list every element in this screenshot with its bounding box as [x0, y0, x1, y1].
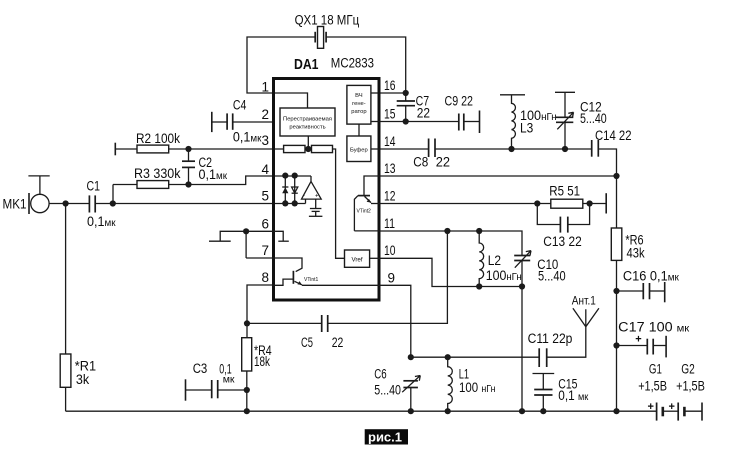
svg-text:5...40: 5...40	[580, 111, 607, 126]
svg-text:C1: C1	[87, 179, 101, 194]
pin numbers right side	[384, 78, 396, 286]
node pin9/C6	[408, 354, 414, 360]
node C17	[613, 342, 619, 348]
node R4/C3	[244, 387, 250, 393]
svg-text:+1,5В: +1,5В	[676, 379, 705, 394]
wire pin6 junction down to pin 7	[245, 231, 247, 258]
svg-text:C14 22: C14 22	[595, 128, 632, 143]
capacitor C1	[87, 179, 116, 230]
svg-text:DA1: DA1	[294, 57, 319, 73]
capacitor C7	[397, 93, 430, 122]
svg-text:C13 22: C13 22	[543, 234, 581, 249]
capacitor C13	[537, 204, 589, 250]
svg-text:Vref: Vref	[351, 256, 362, 263]
bottom rail	[66, 410, 657, 412]
svg-text:12: 12	[384, 189, 396, 204]
resistor R1	[60, 354, 96, 411]
svg-text:0,1 мк: 0,1 мк	[558, 388, 588, 403]
svg-text:L3: L3	[520, 121, 533, 136]
node rail/C15	[540, 408, 546, 414]
wire pin 13 rail	[378, 175, 617, 177]
node rail/R6 column	[613, 408, 619, 414]
wire crystal left to pin 1	[247, 37, 315, 108]
svg-text:-: -	[303, 193, 305, 199]
svg-text:ратор: ратор	[351, 109, 366, 115]
wire pin 13 to VTint2 collector	[364, 176, 378, 196]
internal resistor right	[312, 145, 333, 152]
svg-text:14: 14	[384, 134, 396, 149]
internal op-amp triangle	[302, 176, 322, 204]
svg-text:G1: G1	[649, 362, 662, 377]
antenna Ant.1	[572, 294, 599, 327]
svg-text:18k: 18k	[254, 354, 270, 369]
svg-text:ВЧ: ВЧ	[355, 93, 363, 99]
node L3/pin14 rail	[508, 146, 514, 152]
capacitor C4	[212, 98, 272, 145]
terminal bar pin 6 external	[209, 240, 231, 242]
svg-text:22: 22	[436, 155, 450, 170]
svg-text:0,1мк: 0,1мк	[199, 167, 228, 182]
node R2/C2	[185, 146, 191, 152]
svg-text:Ант.1: Ант.1	[572, 294, 596, 308]
svg-text:+: +	[648, 401, 654, 413]
svg-text:100нГн: 100нГн	[486, 268, 522, 283]
wire VTint2 base to pin 11	[354, 230, 378, 232]
wire pin 7 to internal transistor collector	[246, 258, 302, 272]
svg-text:C4: C4	[233, 98, 247, 113]
internal diode pair	[282, 176, 298, 204]
capacitor C9	[445, 94, 480, 134]
internal resistor left	[284, 145, 305, 152]
wire pin 6 internal stub	[274, 231, 283, 241]
wire internal resistor to Vref	[333, 149, 345, 258]
svg-text:6: 6	[261, 217, 269, 232]
capacitor C2	[182, 149, 227, 185]
svg-text:43k: 43k	[627, 246, 645, 261]
svg-text:5: 5	[261, 189, 269, 204]
svg-text:C3: C3	[193, 361, 208, 376]
node C7/pin15	[403, 118, 409, 124]
svg-text:МС2833: МС2833	[331, 56, 374, 71]
inductor L1	[448, 357, 496, 411]
svg-text:5...40: 5...40	[538, 269, 566, 284]
svg-text:G2: G2	[681, 362, 695, 377]
svg-text:Перестраиваемая: Перестраиваемая	[283, 117, 332, 123]
wire pin 8 to C5 column	[247, 285, 274, 338]
node crystal/C7	[403, 90, 409, 96]
svg-text:22: 22	[332, 335, 344, 350]
svg-text:22: 22	[417, 106, 430, 121]
capacitor C3	[186, 361, 247, 401]
node A (mic junction)	[63, 200, 69, 206]
wire pin 15 to C9	[378, 121, 459, 123]
svg-text:16: 16	[384, 78, 396, 93]
svg-text:C17 100 мк: C17 100 мк	[618, 320, 689, 335]
wire mic junction down to R1	[65, 204, 67, 355]
node pin8/C5	[244, 320, 250, 326]
svg-text:5...40: 5...40	[374, 383, 401, 398]
svg-text:3: 3	[261, 133, 269, 148]
crystal QX1 18 MHz	[295, 13, 360, 49]
svg-text:3k: 3k	[76, 372, 90, 387]
svg-text:C9 22: C9 22	[445, 94, 474, 109]
microphone MK1	[3, 176, 50, 214]
svg-text:4: 4	[261, 162, 269, 177]
node pin11/L2	[476, 228, 482, 234]
wire VTint2 emitter to pin 12	[371, 203, 378, 205]
svg-text:мк: мк	[223, 374, 235, 386]
transistor VTint2	[354, 196, 371, 231]
svg-text:8: 8	[261, 270, 269, 285]
node diodes pin5 a	[282, 200, 288, 206]
svg-text:C8: C8	[413, 155, 428, 170]
wire pin 11 rail to C10	[378, 231, 522, 256]
svg-text:MK1: MK1	[3, 197, 27, 212]
battery G1	[638, 362, 667, 421]
svg-text:100 нГн: 100 нГн	[459, 380, 496, 395]
internal block Vref	[345, 250, 379, 267]
resistor R2	[115, 131, 180, 155]
svg-text:L2: L2	[488, 253, 501, 268]
node L1 top	[445, 354, 451, 360]
resistor R3	[113, 166, 181, 204]
capacitor C15	[533, 374, 589, 412]
svg-text:9: 9	[388, 271, 396, 286]
svg-text:0,1мк: 0,1мк	[233, 130, 262, 145]
node R6/C16	[613, 288, 619, 294]
wire pin 16	[378, 92, 406, 94]
svg-text:11: 11	[384, 216, 395, 231]
svg-text:+: +	[635, 334, 641, 346]
wire R3 node to pin 4	[169, 176, 311, 185]
node diodes pin5 b	[292, 200, 298, 206]
resistor R5	[549, 184, 606, 214]
variable capacitor C12	[555, 92, 607, 149]
svg-text:10: 10	[384, 243, 396, 258]
capacitor C17 polarized	[617, 320, 690, 358]
node C14/pin13	[613, 173, 619, 179]
svg-text:1: 1	[261, 80, 269, 95]
node R5 right	[587, 200, 593, 206]
terminal bar pin 6 internal	[278, 240, 289, 242]
node diodes pin4 a	[282, 173, 288, 179]
node diodes pin4 b	[292, 173, 298, 179]
internal block RF generator	[347, 85, 378, 124]
svg-text:Буфер: Буфер	[350, 148, 368, 154]
svg-text:реактивность: реактивность	[289, 125, 325, 131]
node internal resistors	[305, 146, 311, 152]
resistor R4	[242, 338, 272, 412]
figure label	[365, 429, 408, 444]
wire C5 to pin 11 branch	[328, 231, 448, 323]
svg-text:гене-: гене-	[352, 101, 366, 107]
svg-text:C6: C6	[374, 367, 386, 382]
terminal bar battery	[701, 403, 703, 421]
svg-text:R3 330k: R3 330k	[134, 166, 181, 181]
wire VTint1 emitter to pin 9	[302, 284, 378, 286]
svg-text:13: 13	[384, 161, 396, 176]
wire G2 to terminal	[684, 410, 702, 412]
capacitor C5	[247, 315, 343, 350]
wire pin 6 external	[220, 231, 274, 241]
node pin6 junction	[243, 228, 249, 234]
internal block tunable reactance	[280, 108, 335, 136]
svg-text:+: +	[315, 194, 319, 200]
wire R2 to pin 3	[169, 148, 284, 150]
svg-text:15: 15	[384, 107, 396, 122]
wire crystal right to pin 16	[326, 37, 406, 93]
node rail/L1	[445, 408, 451, 414]
svg-text:2: 2	[261, 107, 269, 122]
variable capacitor C6	[374, 367, 420, 412]
wire pin 10 to L2 bottom	[378, 258, 522, 286]
wire G1 to G2	[663, 410, 678, 412]
node L2 bottom	[476, 283, 482, 289]
wire mic to C1	[49, 203, 89, 205]
battery G2	[669, 362, 705, 421]
pin numbers left side	[261, 80, 269, 286]
node rail/C10	[519, 408, 525, 414]
resistor R6	[611, 176, 644, 411]
node rail/R4	[244, 408, 250, 414]
svg-text:рис.1: рис.1	[368, 430, 402, 445]
node C10 bottom	[519, 283, 525, 289]
svg-text:0,1мк: 0,1мк	[87, 214, 116, 229]
node C1 right	[110, 200, 116, 206]
capacitor C11	[528, 327, 586, 367]
chip DA1 MC2833 outline	[274, 56, 380, 301]
node R5 left	[534, 200, 540, 206]
capacitor C8	[413, 139, 450, 170]
svg-text:R2 100k: R2 100k	[136, 131, 180, 146]
node R3/C2	[185, 181, 191, 187]
svg-text:C5: C5	[301, 335, 313, 350]
svg-text:VTint1: VTint1	[304, 277, 318, 283]
wire tank rail	[411, 356, 539, 358]
inductor L3	[500, 95, 557, 149]
svg-text:7: 7	[261, 243, 269, 258]
node C12/pin14 rail	[562, 146, 568, 152]
svg-text:+1,5В: +1,5В	[638, 379, 667, 394]
svg-text:R5 51: R5 51	[549, 184, 580, 199]
wire reactance to internal resistors	[307, 136, 309, 149]
svg-text:C11 22p: C11 22p	[528, 331, 573, 346]
internal ground under op-amp	[309, 199, 323, 216]
wire pin 12 to R5	[378, 203, 551, 205]
svg-text:QX1 18 МГц: QX1 18 МГц	[295, 13, 360, 28]
node rail/C6	[408, 408, 414, 414]
svg-text:C16 0,1мк: C16 0,1мк	[623, 269, 679, 284]
wire generator to buffer	[358, 124, 360, 136]
node pin11/C5 branch	[444, 228, 450, 234]
svg-text:+: +	[669, 401, 675, 413]
capacitor C14	[592, 128, 632, 176]
wire C8 to C14	[435, 148, 592, 150]
transistor VTint1	[274, 271, 318, 286]
wire pin 9 down to tank	[378, 285, 411, 357]
capacitor C16	[617, 269, 680, 303]
svg-text:VTint2: VTint2	[357, 209, 371, 215]
wire C1 to pin 5	[95, 203, 305, 205]
variable capacitor C10	[514, 251, 566, 412]
internal block buffer	[347, 136, 378, 162]
wire pin 14 to C8	[378, 148, 429, 150]
inductor L2	[479, 231, 522, 287]
